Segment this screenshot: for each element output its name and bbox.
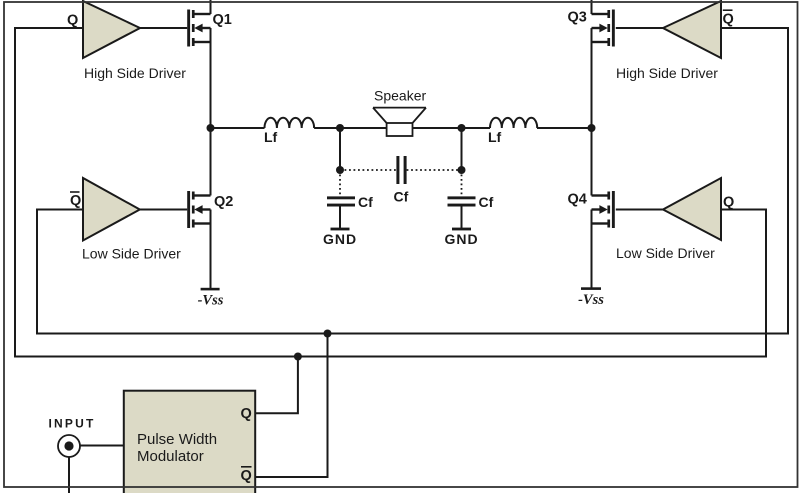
svg-text:Q1: Q1 [213,12,232,28]
svg-text:Speaker: Speaker [374,88,426,104]
svg-text:Q: Q [723,12,734,28]
svg-text:Lf: Lf [488,129,502,145]
svg-text:-Vss: -Vss [578,292,604,308]
svg-text:High Side Driver: High Side Driver [84,65,186,81]
svg-text:Cf: Cf [479,194,494,210]
svg-text:Q: Q [241,468,252,484]
svg-text:-Vss: -Vss [198,293,224,309]
svg-text:Cf: Cf [358,194,373,210]
svg-text:Q: Q [723,195,734,211]
svg-text:Q2: Q2 [214,194,233,210]
svg-text:GND: GND [444,231,478,247]
svg-text:Q: Q [241,406,252,422]
svg-text:Cf: Cf [394,189,409,205]
svg-text:Pulse Width: Pulse Width [137,431,217,448]
svg-text:Q4: Q4 [568,192,587,208]
svg-text:Q: Q [67,13,78,29]
svg-text:Low Side Driver: Low Side Driver [82,246,181,262]
svg-text:Q: Q [70,193,81,209]
svg-text:Q3: Q3 [568,10,587,26]
svg-text:Low Side Driver: Low Side Driver [616,245,715,261]
svg-text:Lf: Lf [264,129,278,145]
svg-text:High Side Driver: High Side Driver [616,65,718,81]
svg-text:Modulator: Modulator [137,448,204,465]
svg-text:INPUT: INPUT [49,417,96,431]
svg-text:GND: GND [323,231,357,247]
